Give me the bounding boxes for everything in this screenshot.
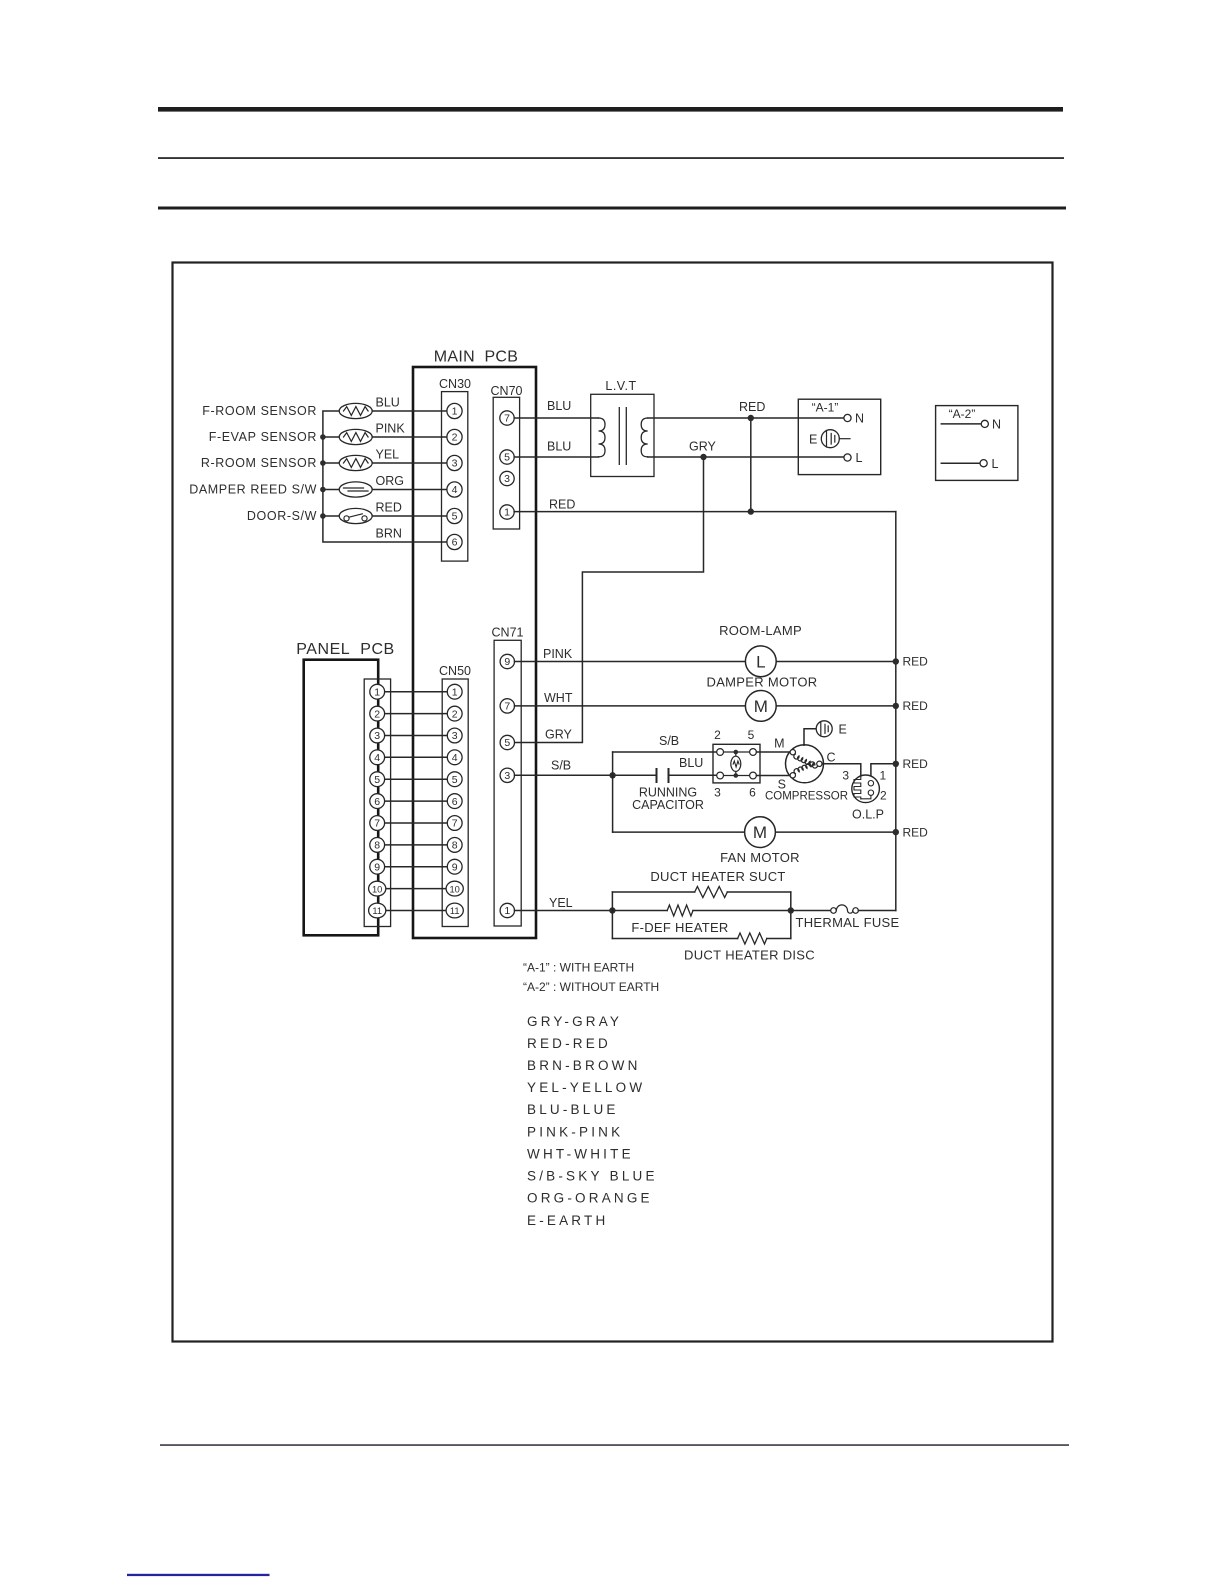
pins CN71 9,7,5,3,1: [500, 654, 514, 917]
svg-text:PINK: PINK: [376, 422, 406, 436]
svg-text:8: 8: [374, 840, 380, 852]
node relay inner top: [734, 750, 739, 778]
svg-text:WHT: WHT: [544, 691, 573, 705]
svg-text:CN70: CN70: [491, 384, 523, 398]
heater F-DEF HEATER: [631, 905, 728, 935]
svg-text:9: 9: [504, 656, 510, 668]
relay starting relay box: [713, 728, 760, 800]
node S/B junction: [609, 772, 615, 778]
svg-text:M: M: [754, 697, 768, 716]
node dots sensor bracket: [320, 434, 326, 519]
svg-text:11: 11: [450, 906, 460, 916]
svg-text:DUCT HEATER SUCT: DUCT HEATER SUCT: [650, 869, 785, 884]
transformer L.V.T: [591, 379, 654, 477]
svg-text:RED: RED: [903, 825, 929, 839]
svg-text:E: E: [809, 433, 817, 447]
svg-text:7: 7: [504, 701, 510, 713]
svg-text:6: 6: [452, 537, 458, 549]
svg-text:S: S: [778, 777, 786, 791]
sensor F-ROOM SENSOR: [202, 396, 400, 419]
svg-text:S/B: S/B: [659, 734, 679, 748]
svg-text:4: 4: [452, 484, 458, 496]
svg-text:N: N: [992, 418, 1001, 432]
motor FAN MOTOR M: [720, 817, 800, 865]
svg-text:1: 1: [880, 769, 887, 783]
wire heater to fuse: [791, 910, 831, 912]
svg-text:S/B: S/B: [551, 759, 571, 773]
svg-text:N: N: [855, 412, 864, 426]
connector PANEL pins box: [364, 679, 390, 927]
svg-text:DOOR-S/W: DOOR-S/W: [247, 509, 317, 523]
svg-text:F-EVAP SENSOR: F-EVAP SENSOR: [209, 430, 317, 444]
svg-text:CAPACITOR: CAPACITOR: [632, 798, 704, 812]
svg-text:YEL: YEL: [549, 896, 573, 910]
svg-text:9: 9: [452, 861, 458, 873]
connector CN30: [439, 377, 471, 561]
capacitor RUNNING CAPACITOR: [632, 756, 716, 812]
wire sensors to CN30: [372, 411, 447, 516]
wire relay5 to compressor M: [756, 751, 790, 753]
svg-text:ORG-ORANGE: ORG-ORANGE: [527, 1191, 653, 1206]
svg-text:3: 3: [842, 769, 849, 783]
svg-text:YEL-YELLOW: YEL-YELLOW: [527, 1080, 645, 1095]
svg-text:6: 6: [749, 786, 756, 800]
svg-text:5: 5: [452, 774, 458, 786]
lamp ROOM-LAMP L: [719, 623, 802, 677]
node GRY junction: [700, 454, 706, 460]
svg-text:2: 2: [452, 708, 458, 720]
svg-text:GRY: GRY: [689, 440, 717, 454]
svg-text:1: 1: [452, 406, 458, 418]
heater DUCT HEATER DISC: [684, 933, 815, 962]
pins CN50 1-11: [446, 684, 463, 918]
wire right trunk RED: [896, 512, 928, 911]
wire relay6 to compressor S: [756, 775, 790, 777]
node heater left: [609, 907, 615, 913]
svg-text:3: 3: [504, 770, 510, 782]
wire fuse to trunk: [858, 910, 895, 912]
svg-text:CN50: CN50: [439, 664, 471, 678]
svg-text:L.V.T: L.V.T: [605, 379, 636, 393]
wire S/B branch vertical: [612, 752, 614, 832]
plug A-1: [798, 399, 880, 474]
legend wire colors: [527, 1014, 658, 1228]
svg-text:GRY: GRY: [545, 728, 573, 742]
svg-text:7: 7: [452, 818, 458, 830]
svg-text:“A-2” : WITHOUT EARTH: “A-2” : WITHOUT EARTH: [523, 980, 659, 994]
wire F-ROOM sensor bracket: [323, 411, 447, 542]
wire S/B upper branch to relay pin2: [613, 734, 717, 752]
connector CN71: [492, 626, 524, 927]
svg-text:3: 3: [714, 786, 721, 800]
svg-text:“A-1” : WITH EARTH: “A-1” : WITH EARTH: [523, 961, 634, 975]
svg-text:R-ROOM SENSOR: R-ROOM SENSOR: [201, 456, 317, 470]
wire RED CN70-1 to right trunk: [514, 498, 896, 512]
wire YEL CN71-1 to heater network: [515, 896, 613, 911]
pins PANEL 1-11: [369, 684, 386, 918]
overload protector O.L.P: [852, 775, 887, 821]
sensor R-ROOM SENSOR: [201, 448, 399, 471]
svg-text:L: L: [856, 451, 863, 465]
svg-text:COMPRESSOR: COMPRESSOR: [765, 790, 848, 802]
fuse THERMAL FUSE: [795, 905, 899, 930]
node trunk junctions: [893, 658, 899, 835]
svg-text:M: M: [774, 737, 784, 751]
svg-text:9: 9: [374, 861, 380, 873]
svg-text:THERMAL FUSE: THERMAL FUSE: [795, 915, 899, 930]
svg-text:4: 4: [452, 752, 458, 764]
svg-text:RED: RED: [376, 501, 402, 515]
svg-text:RED-RED: RED-RED: [527, 1036, 611, 1051]
svg-text:2: 2: [714, 728, 721, 742]
svg-text:3: 3: [374, 730, 380, 742]
svg-text:L: L: [756, 652, 765, 671]
svg-text:BLU: BLU: [547, 440, 571, 454]
svg-text:WHT-WHITE: WHT-WHITE: [527, 1146, 634, 1161]
svg-text:5: 5: [748, 728, 755, 742]
wire RED LVT to A-1 N: [648, 400, 844, 418]
svg-text:BRN-BROWN: BRN-BROWN: [527, 1058, 641, 1073]
svg-text:RED: RED: [903, 757, 929, 771]
svg-text:L: L: [992, 457, 999, 471]
svg-text:BRN: BRN: [376, 527, 402, 541]
svg-text:DAMPER MOTOR: DAMPER MOTOR: [707, 674, 818, 689]
svg-text:BLU: BLU: [376, 396, 400, 410]
svg-text:FAN MOTOR: FAN MOTOR: [720, 850, 800, 865]
svg-text:RED: RED: [903, 655, 929, 669]
note A-1 WITH EARTH: [523, 961, 659, 995]
wire compressor C to OLP 3: [822, 764, 861, 783]
svg-text:5: 5: [504, 737, 510, 749]
svg-text:DAMPER REED S/W: DAMPER REED S/W: [189, 483, 317, 497]
PAGE_FURNITURE: [127, 107, 1069, 1576]
svg-text:1: 1: [452, 686, 458, 698]
svg-text:6: 6: [374, 796, 380, 808]
svg-text:DUCT HEATER DISC: DUCT HEATER DISC: [684, 947, 815, 962]
wire GRY label CN71-5: [545, 728, 573, 742]
svg-text:E: E: [839, 722, 847, 736]
svg-text:BLU: BLU: [547, 399, 571, 413]
connector CN70: [491, 384, 523, 529]
svg-text:2: 2: [374, 708, 380, 720]
svg-text:M: M: [753, 823, 767, 842]
wire S/B from CN71-3: [515, 759, 657, 776]
svg-text:1: 1: [504, 507, 510, 519]
svg-text:BLU-BLUE: BLU-BLUE: [527, 1102, 619, 1117]
svg-text:2: 2: [452, 432, 458, 444]
svg-text:ORG: ORG: [376, 474, 404, 488]
svg-text:PINK-PINK: PINK-PINK: [527, 1124, 623, 1139]
svg-text:YEL: YEL: [376, 448, 400, 462]
wire BLU CN70-5 to LVT: [514, 440, 598, 458]
svg-text:CN71: CN71: [492, 626, 524, 640]
wire RED vertical link: [750, 418, 752, 512]
plug A-2: [936, 406, 1018, 481]
svg-text:RED: RED: [739, 400, 765, 414]
svg-text:S/B-SKY BLUE: S/B-SKY BLUE: [527, 1169, 658, 1184]
svg-text:BLU: BLU: [679, 756, 703, 770]
svg-text:5: 5: [452, 511, 458, 523]
wire heater network frame: [612, 892, 790, 939]
svg-text:5: 5: [374, 774, 380, 786]
svg-text:“A-2”: “A-2”: [949, 407, 976, 421]
svg-text:GRY-GRAY: GRY-GRAY: [527, 1014, 622, 1029]
svg-text:4: 4: [374, 752, 380, 764]
svg-text:RED: RED: [903, 699, 929, 713]
svg-text:2: 2: [880, 789, 887, 803]
svg-text:3: 3: [504, 473, 510, 485]
svg-text:5: 5: [504, 452, 510, 464]
svg-text:E-EARTH: E-EARTH: [527, 1213, 608, 1228]
wire PINK lamp row: [515, 647, 896, 662]
svg-text:3: 3: [452, 730, 458, 742]
svg-text:PINK: PINK: [543, 647, 573, 661]
pins CN30 1-6: [447, 403, 462, 549]
svg-text:RED: RED: [549, 498, 575, 512]
wire FAN MOTOR row: [613, 831, 896, 833]
svg-text:MAIN PCB: MAIN PCB: [434, 349, 519, 366]
wires PANEL to CN50: [385, 692, 448, 911]
svg-text:7: 7: [374, 818, 380, 830]
motor DAMPER MOTOR M: [707, 674, 818, 721]
MAIN PCB: [413, 349, 536, 939]
PANEL PCB: [296, 641, 395, 935]
wire BRN: [376, 527, 402, 541]
wire GRY down-route to CN71-5: [514, 457, 703, 743]
wire BLU CN70-7 to LVT: [514, 399, 598, 418]
svg-text:F-DEF HEATER: F-DEF HEATER: [631, 920, 728, 935]
wire GRY LVT to A-1 L: [648, 440, 844, 458]
node heater right: [788, 907, 794, 913]
wire OLP 1 to trunk: [871, 764, 896, 783]
svg-text:6: 6: [452, 796, 458, 808]
svg-text:3: 3: [452, 458, 458, 470]
svg-text:CN30: CN30: [439, 377, 471, 391]
svg-text:7: 7: [504, 413, 510, 425]
node RED row junction: [748, 508, 754, 514]
sensor F-EVAP SENSOR: [209, 422, 406, 445]
node RED top junction: [748, 415, 754, 421]
svg-text:O.L.P: O.L.P: [852, 807, 884, 821]
connector CN50: [439, 664, 471, 927]
switch DOOR-S/W: [247, 501, 402, 524]
switch DAMPER REED S/W: [189, 474, 404, 497]
svg-text:8: 8: [452, 840, 458, 852]
svg-text:1: 1: [504, 905, 510, 917]
pins CN70 7,5,3,1: [500, 411, 514, 519]
svg-text:C: C: [827, 751, 836, 765]
earth E compressor: [804, 721, 847, 745]
svg-text:10: 10: [450, 884, 460, 894]
compressor COMPRESSOR: [765, 737, 848, 803]
svg-text:11: 11: [372, 906, 382, 916]
svg-text:1: 1: [374, 686, 380, 698]
wire WHT damper row: [515, 691, 896, 706]
svg-text:PANEL PCB: PANEL PCB: [296, 641, 395, 658]
svg-text:F-ROOM SENSOR: F-ROOM SENSOR: [202, 404, 317, 418]
svg-text:ROOM-LAMP: ROOM-LAMP: [719, 623, 802, 638]
heater DUCT HEATER SUCT: [650, 869, 785, 898]
svg-text:“A-1”: “A-1”: [812, 400, 839, 414]
svg-text:10: 10: [372, 884, 382, 894]
